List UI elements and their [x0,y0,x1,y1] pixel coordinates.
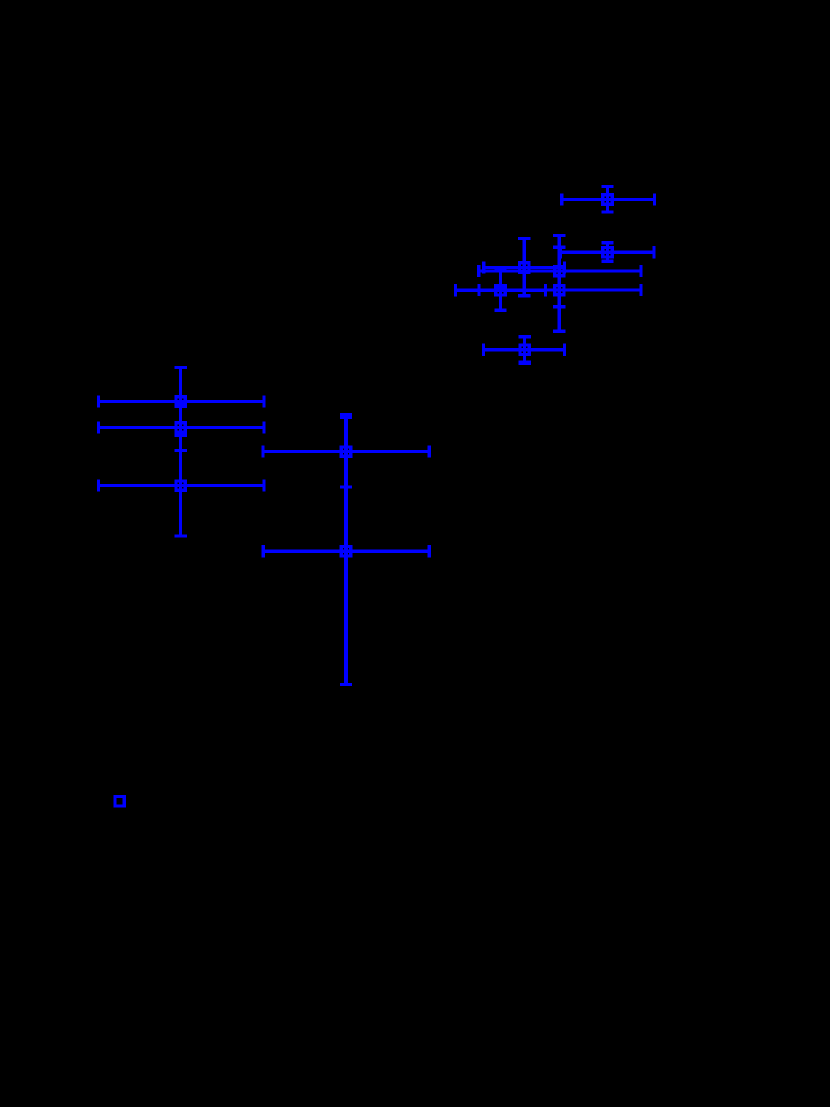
data point P6 with x/y error bars [477,246,642,333]
data point P10 with x/y error bars [97,434,266,538]
lone open square marker (legend entry) [115,797,124,806]
data point P5 with x/y error bars [454,269,547,312]
data point P12 with x/y error bars [262,416,431,686]
data point P3 with x/y error bars [482,237,566,297]
data point P2 with x/y error bars [559,241,656,263]
data point P1 with x/y error bars [560,185,656,214]
data point P9 with x/y error bars [97,403,266,452]
data point P4 with x/y error bars [477,234,642,308]
data point P7 with x/y error bars [482,335,566,365]
data point P11 with x/y error bars [261,413,430,489]
data point P8 with x/y error bars [97,366,266,437]
